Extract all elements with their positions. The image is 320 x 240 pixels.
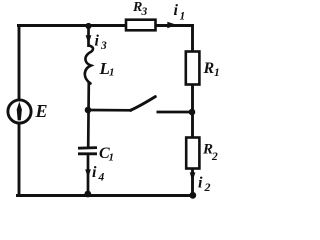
wire right (191, 24, 194, 196)
inductor L1 (85, 46, 93, 84)
wire switch left (88, 109, 132, 112)
svg-text:3: 3 (100, 40, 107, 52)
svg-text:E: E (35, 101, 48, 121)
svg-text:1: 1 (214, 67, 220, 79)
svg-text:1: 1 (180, 11, 186, 23)
source E arrow (17, 102, 22, 121)
wire bottom (16, 194, 194, 197)
svg-text:1: 1 (109, 152, 115, 164)
svg-text:i: i (174, 2, 179, 19)
capacitor C1 plate top (78, 146, 97, 149)
node middle (junction dot) (85, 107, 92, 114)
capacitor C1 plate bottom (78, 152, 97, 155)
wire top (17, 24, 194, 27)
arrow i4 (85, 169, 91, 177)
svg-text:1: 1 (109, 67, 115, 79)
node bottom middle (junction dot) (84, 191, 91, 198)
wire left (18, 24, 21, 196)
arrow i2 (190, 172, 196, 181)
wire middle lower (87, 155, 90, 196)
resistor R3 (126, 20, 156, 31)
svg-text:2: 2 (211, 151, 218, 163)
svg-text:3: 3 (141, 6, 148, 18)
arrow i1 (167, 22, 177, 29)
svg-text:i: i (92, 164, 97, 181)
wire middle upper (87, 26, 90, 48)
source E circle (8, 100, 31, 123)
resistor R1 (186, 52, 200, 85)
node top middle (junction dot) (85, 23, 91, 29)
arrow i3 (86, 35, 92, 44)
svg-text:2: 2 (204, 180, 211, 194)
svg-text:i: i (95, 33, 100, 50)
svg-text:i: i (198, 175, 203, 192)
svg-text:R: R (203, 60, 215, 77)
node right middle (junction dot) (189, 109, 196, 116)
resistor R2 (186, 138, 199, 169)
switch blade S (131, 97, 156, 111)
node bottom right (junction dot) (189, 192, 196, 199)
wire switch right (157, 111, 193, 114)
wire middle mid (87, 83, 90, 149)
svg-text:4: 4 (98, 172, 105, 184)
